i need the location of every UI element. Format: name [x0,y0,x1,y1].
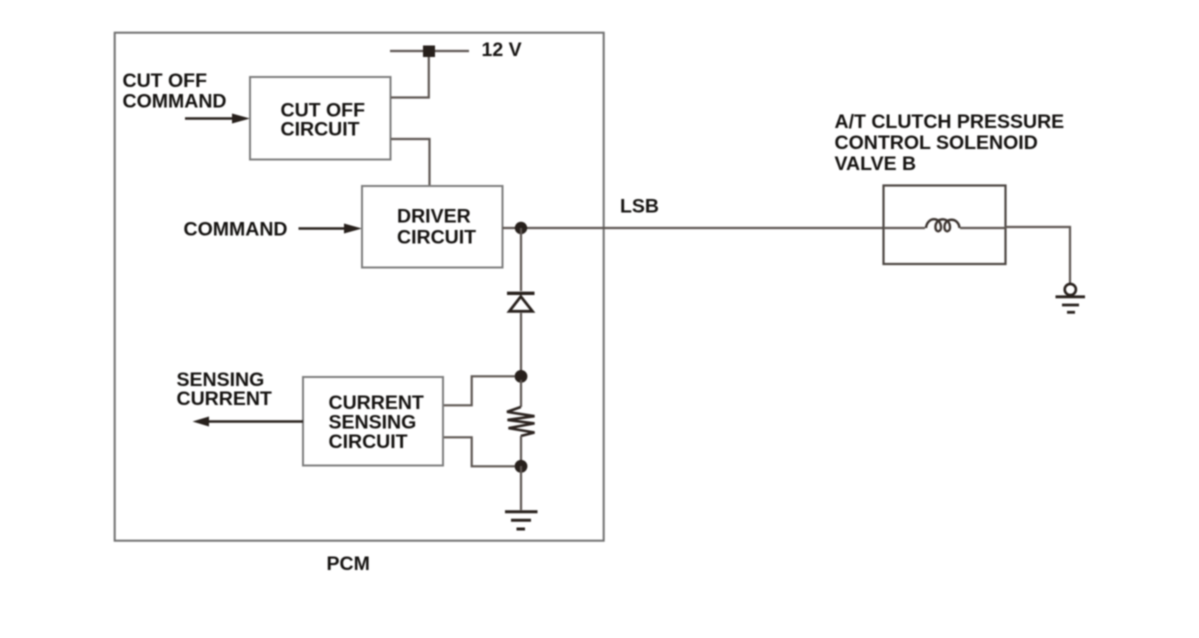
svg-text:PCM: PCM [327,553,370,575]
wire driver output down to diode [520,228,522,291]
svg-text:COMMAND: COMMAND [184,219,288,241]
wire node to resistor [520,380,522,407]
wire current sensing circuit to bottom node [443,437,515,466]
12V supply rail [390,50,469,52]
wire top node to current sensing circuit [443,376,515,405]
wire coil out to box edge [960,227,1006,229]
svg-text:CIRCUIT: CIRCUIT [329,431,408,453]
ground chassis right: bars [1056,297,1086,313]
wire diode to sense node [520,313,522,372]
svg-text:COMMAND: COMMAND [123,91,227,113]
arrow sensing current output pointing left [193,417,304,427]
ground PCM internal bars [505,512,538,529]
wire resistor to bottom node [520,436,522,462]
ground chassis right: terminal circle [1065,284,1076,295]
node LSB junction dot [515,222,527,234]
driver circuit block [362,186,503,268]
svg-text:DRIVER: DRIVER [397,206,471,228]
wire driver output LSB net [503,227,884,229]
node sense bottom dot [515,460,528,473]
svg-text:A/T CLUTCH PRESSURE: A/T CLUTCH PRESSURE [835,111,1065,133]
svg-text:VALVE B: VALVE B [835,153,917,175]
svg-text:CIRCUIT: CIRCUIT [281,119,360,141]
current sensing circuit block [303,377,443,466]
cut off circuit block [250,77,391,160]
svg-text:CIRCUIT: CIRCUIT [397,227,476,249]
node sense top dot [515,370,528,383]
svg-text:LSB: LSB [620,196,659,218]
arrow into cut off circuit [185,114,250,124]
solenoid valve B box [884,186,1006,265]
svg-text:CUT OFF: CUT OFF [123,70,208,92]
arrow into driver circuit [299,224,363,234]
PCM enclosure box [115,33,604,541]
wire into coil [884,227,926,229]
inductor solenoid coil [926,219,960,231]
svg-text:CONTROL SOLENOID: CONTROL SOLENOID [835,132,1038,154]
svg-text:CURRENT: CURRENT [177,388,272,410]
diode D flyback: cathode bar [507,292,535,295]
resistor R current sense zigzag [507,407,535,436]
wire solenoid to chassis ground [1006,227,1071,284]
svg-text:12 V: 12 V [482,39,522,61]
12V node square terminal [423,46,435,58]
wire bottom node to ground [520,466,522,510]
wire cut off circuit to driver circuit [391,139,430,186]
diode D flyback: triangle anode [509,297,532,312]
wire cut off circuit to 12V node [391,52,429,98]
